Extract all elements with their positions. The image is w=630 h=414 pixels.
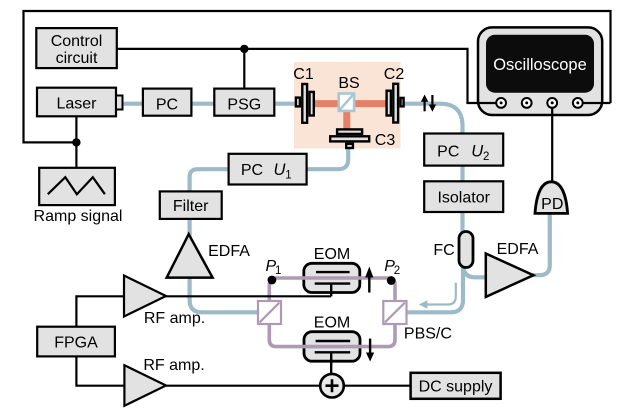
coupler right PBS/C: [383, 301, 406, 324]
svg-text:PC: PC: [241, 162, 263, 179]
fiber FC to PBS/C: [405, 265, 463, 312]
svg-text:2: 2: [483, 151, 489, 163]
ramp signal generator box: [34, 168, 123, 225]
wire FPGA to RF amp1: [76, 296, 124, 326]
fiber PC U1 to Filter: [190, 169, 229, 192]
svg-text:RF amp.: RF amp.: [144, 310, 205, 327]
svg-text:EDFA: EDFA: [497, 241, 539, 258]
svg-text:U: U: [471, 142, 483, 160]
wire into knob1: [466, 102, 501, 104]
svg-text:Control: Control: [51, 33, 103, 50]
PD photodetector: [535, 182, 568, 214]
filter box: [160, 191, 222, 219]
oscilloscope: [478, 27, 602, 115]
svg-text:PC: PC: [437, 143, 459, 160]
laser box: [37, 88, 123, 117]
FC fiber coupler: [433, 232, 473, 268]
svg-text:1: 1: [275, 265, 281, 277]
coupler left: [258, 301, 281, 324]
svg-text:DC supply: DC supply: [419, 379, 493, 396]
collimator C2: [387, 84, 404, 123]
wire RF amp1 to EOM top: [166, 295, 331, 297]
collimator C1: [296, 84, 314, 123]
oscilloscope knobs: [496, 98, 582, 108]
isolator box: [424, 181, 503, 212]
free-space optics highlight background: [294, 62, 401, 149]
svg-text:RF amp.: RF amp.: [143, 357, 204, 374]
beam BS to C3: [343, 112, 350, 130]
svg-text:FC: FC: [433, 242, 454, 259]
wire outer loop (ramp to oscilloscope): [24, 11, 611, 142]
junction dot PSG: [240, 45, 248, 53]
svg-text:2: 2: [394, 265, 400, 277]
EDFA1 amplifier: [167, 234, 251, 277]
fiber loop bottom path: [269, 323, 395, 347]
svg-text:BS: BS: [338, 75, 359, 92]
beam BS to C2: [355, 100, 386, 107]
svg-text:Oscilloscope: Oscilloscope: [493, 56, 587, 74]
svg-text:PBS/C: PBS/C: [404, 326, 452, 343]
PSG box: [214, 89, 274, 116]
fiber C3 to PC U1: [306, 147, 348, 169]
svg-text:Ramp signal: Ramp signal: [34, 208, 123, 225]
fiber EDFA1 input from coupler: [190, 277, 259, 312]
svg-text:PSG: PSG: [227, 96, 261, 113]
junction dot ramp: [72, 138, 80, 146]
PC box: [143, 89, 192, 116]
node P1: [268, 276, 277, 285]
svg-text:EDFA: EDFA: [208, 243, 250, 260]
fiber C2 to PC U2: [405, 104, 463, 134]
node P2: [387, 276, 396, 285]
FPGA box: [37, 327, 115, 357]
svg-text:circuit: circuit: [56, 50, 98, 67]
polarization arrow up near P2: [365, 267, 373, 293]
fiber EDFA2 output to PD: [533, 210, 550, 275]
wire RF amp2 to adder to DC supply: [166, 385, 411, 387]
svg-text:1: 1: [285, 169, 291, 181]
wire control circuit to oscilloscope: [117, 49, 468, 103]
wire FPGA to RF amp2: [76, 356, 124, 385]
svg-text:PD: PD: [541, 196, 563, 213]
svg-text:FPGA: FPGA: [54, 335, 98, 352]
fiber FC branch to EDFA2 input: [463, 264, 487, 277]
svg-text:PC: PC: [156, 96, 178, 113]
svg-text:Isolator: Isolator: [437, 190, 490, 207]
EDFA2 amplifier: [486, 241, 539, 297]
collimator C3: [330, 129, 369, 148]
fiber laser to PC: [122, 102, 143, 106]
flow direction arrow into PBS/C: [419, 283, 456, 309]
wire knob3 to PD: [551, 103, 553, 184]
RF amp1: [124, 276, 205, 328]
EOM top box: [304, 263, 360, 292]
EOM top electrodes: [315, 272, 351, 296]
fiber PC to PSG: [191, 102, 215, 106]
svg-text:Laser: Laser: [56, 96, 97, 113]
polarization arrow down near bottom EOM: [366, 339, 374, 362]
svg-text:EOM: EOM: [314, 315, 350, 332]
DC supply box: [411, 373, 501, 399]
svg-text:C1: C1: [293, 66, 314, 83]
svg-text:C2: C2: [384, 66, 405, 83]
PC U1 box: [229, 154, 307, 185]
label P2: [384, 258, 400, 277]
EOM bottom electrodes: [315, 341, 351, 374]
EOM bottom box: [304, 332, 360, 362]
fiber PC U2 to Isolator: [460, 165, 464, 182]
adder: [320, 374, 344, 398]
wire laser to ramp junction: [75, 116, 77, 168]
svg-text:EOM: EOM: [314, 246, 350, 263]
svg-text:U: U: [274, 161, 286, 179]
fiber PSG to C1: [274, 102, 297, 106]
svg-text:Filter: Filter: [173, 198, 209, 215]
fiber Isolator to FC: [460, 212, 464, 235]
beam splitter BS: [339, 94, 354, 111]
RF amp2: [124, 357, 204, 406]
beam C1 to BS: [315, 100, 338, 107]
svg-text:C3: C3: [375, 132, 396, 149]
polarization arrows after C2: [421, 95, 436, 112]
wire knob4 to outer loop: [578, 102, 611, 104]
PC U2 box: [424, 134, 503, 166]
fiber loop top path P1-P2: [269, 278, 395, 302]
control circuit box: [36, 28, 117, 68]
label P1: [266, 258, 282, 277]
fiber Filter to EDFA1: [188, 219, 192, 241]
wire PSG drop: [243, 49, 245, 89]
